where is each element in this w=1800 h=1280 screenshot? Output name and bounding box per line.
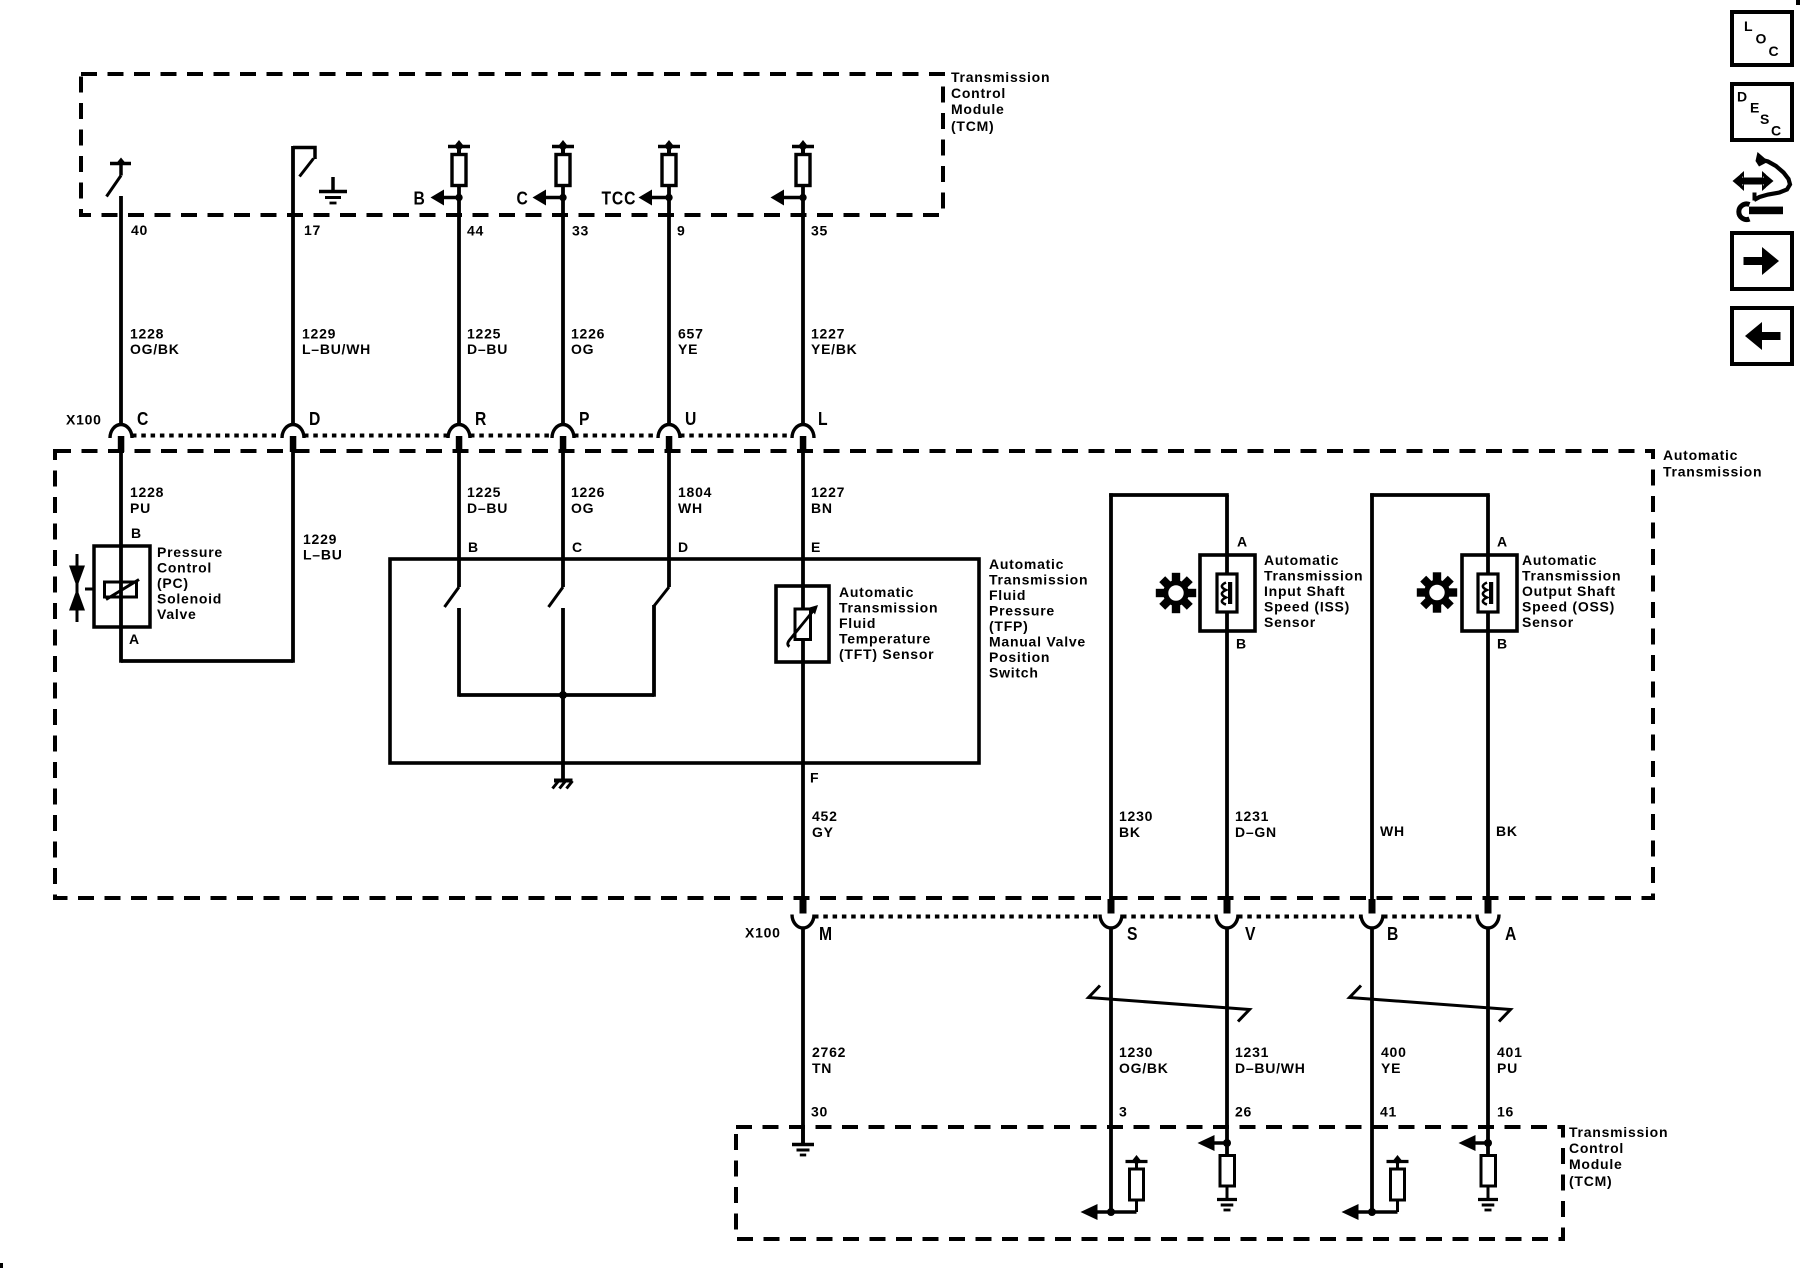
svg-text:D–BU/WH: D–BU/WH (1235, 1060, 1306, 1076)
svg-text:E: E (1750, 100, 1760, 116)
svg-text:Fluid: Fluid (839, 615, 876, 631)
svg-text:L–BU/WH: L–BU/WH (302, 341, 371, 357)
svg-text:1804: 1804 (678, 484, 712, 500)
svg-text:BK: BK (1119, 824, 1141, 840)
svg-text:Sensor: Sensor (1522, 614, 1574, 630)
svg-text:C: C (572, 539, 583, 555)
svg-text:A: A (1505, 923, 1517, 945)
svg-text:A: A (1237, 534, 1248, 550)
svg-text:D–BU: D–BU (467, 500, 508, 516)
svg-text:Fluid: Fluid (989, 587, 1026, 603)
svg-text:YE/BK: YE/BK (811, 341, 858, 357)
svg-text:1227: 1227 (811, 326, 845, 342)
svg-text:PU: PU (1497, 1060, 1518, 1076)
svg-text:B: B (1497, 636, 1508, 652)
svg-text:3: 3 (1119, 1104, 1128, 1120)
svg-text:40: 40 (131, 222, 148, 238)
svg-text:Module: Module (1569, 1156, 1623, 1172)
svg-text:L: L (818, 408, 828, 430)
svg-text:OG/BK: OG/BK (1119, 1060, 1169, 1076)
svg-text:D–BU: D–BU (467, 341, 508, 357)
svg-text:1226: 1226 (571, 326, 605, 342)
svg-text:X100: X100 (745, 925, 781, 941)
svg-text:F: F (810, 770, 819, 786)
svg-text:YE: YE (678, 341, 698, 357)
svg-text:452: 452 (812, 808, 838, 824)
svg-text:Temperature: Temperature (839, 631, 931, 647)
svg-text:B: B (1236, 636, 1247, 652)
svg-text:Automatic: Automatic (1264, 552, 1339, 568)
svg-text:U: U (685, 408, 697, 430)
svg-text:S: S (1127, 923, 1138, 945)
svg-text:TCC: TCC (602, 187, 637, 209)
svg-text:35: 35 (811, 223, 828, 239)
svg-text:(TCM): (TCM) (1569, 1173, 1612, 1189)
svg-text:Transmission: Transmission (1264, 568, 1363, 584)
svg-text:Automatic: Automatic (1663, 447, 1738, 463)
svg-text:Pressure: Pressure (157, 544, 223, 560)
svg-text:1226: 1226 (571, 484, 605, 500)
svg-text:Module: Module (951, 101, 1005, 117)
svg-text:1231: 1231 (1235, 1044, 1269, 1060)
svg-text:Transmission: Transmission (1522, 568, 1621, 584)
svg-text:16: 16 (1497, 1104, 1514, 1120)
svg-text:OG/BK: OG/BK (130, 341, 180, 357)
svg-text:YE: YE (1381, 1060, 1401, 1076)
svg-text:TN: TN (812, 1060, 832, 1076)
svg-text:26: 26 (1235, 1104, 1252, 1120)
svg-text:BN: BN (811, 500, 833, 516)
svg-text:C: C (137, 408, 149, 430)
svg-text:C: C (1771, 123, 1782, 139)
svg-text:Position: Position (989, 649, 1050, 665)
svg-text:S: S (1760, 111, 1770, 127)
svg-text:GY: GY (812, 824, 834, 840)
svg-text:Manual Valve: Manual Valve (989, 634, 1086, 650)
svg-text:B: B (414, 187, 426, 209)
svg-text:X100: X100 (66, 412, 102, 428)
svg-text:Transmission: Transmission (989, 572, 1088, 588)
svg-text:V: V (1245, 923, 1256, 945)
svg-text:A: A (1497, 534, 1508, 550)
svg-text:1229: 1229 (303, 531, 337, 547)
svg-text:Automatic: Automatic (989, 556, 1064, 572)
svg-text:WH: WH (678, 500, 703, 516)
svg-text:Control: Control (1569, 1140, 1624, 1156)
svg-text:1230: 1230 (1119, 808, 1153, 824)
svg-text:1225: 1225 (467, 484, 501, 500)
svg-text:30: 30 (811, 1104, 828, 1120)
svg-text:Speed (ISS): Speed (ISS) (1264, 599, 1350, 615)
svg-text:1231: 1231 (1235, 808, 1269, 824)
svg-text:(TCM): (TCM) (951, 118, 994, 134)
svg-text:OG: OG (571, 500, 594, 516)
svg-text:O: O (1756, 31, 1768, 47)
svg-text:B: B (1387, 923, 1399, 945)
svg-text:(TFT) Sensor: (TFT) Sensor (839, 646, 934, 662)
svg-text:P: P (579, 408, 590, 430)
svg-text:Speed (OSS): Speed (OSS) (1522, 599, 1615, 615)
svg-text:OG: OG (571, 341, 594, 357)
svg-text:Automatic: Automatic (1522, 552, 1597, 568)
svg-text:D: D (1737, 89, 1748, 105)
svg-text:Input Shaft: Input Shaft (1264, 583, 1345, 599)
svg-text:401: 401 (1497, 1044, 1523, 1060)
svg-text:L–BU: L–BU (303, 547, 343, 563)
svg-text:(TFP): (TFP) (989, 618, 1029, 634)
svg-text:E: E (811, 539, 821, 555)
svg-text:1227: 1227 (811, 484, 845, 500)
svg-text:PU: PU (130, 500, 151, 516)
svg-text:Automatic: Automatic (839, 584, 914, 600)
svg-text:Valve: Valve (157, 606, 197, 622)
svg-text:R: R (475, 408, 487, 430)
svg-text:C: C (517, 187, 529, 209)
svg-text:D: D (678, 539, 689, 555)
svg-text:9: 9 (677, 223, 686, 239)
svg-text:400: 400 (1381, 1044, 1407, 1060)
svg-text:17: 17 (304, 222, 321, 238)
svg-text:BK: BK (1496, 823, 1518, 839)
svg-text:Output Shaft: Output Shaft (1522, 583, 1616, 599)
svg-text:Transmission: Transmission (1663, 464, 1762, 480)
svg-text:Control: Control (951, 85, 1006, 101)
svg-text:(PC): (PC) (157, 575, 189, 591)
svg-text:1230: 1230 (1119, 1044, 1153, 1060)
svg-text:Control: Control (157, 560, 212, 576)
svg-text:Transmission: Transmission (839, 600, 938, 616)
svg-text:Pressure: Pressure (989, 603, 1055, 619)
svg-text:657: 657 (678, 326, 704, 342)
svg-text:33: 33 (572, 223, 589, 239)
svg-text:1228: 1228 (130, 326, 164, 342)
svg-text:2762: 2762 (812, 1044, 846, 1060)
svg-text:B: B (131, 525, 142, 541)
svg-text:Transmission: Transmission (1569, 1124, 1668, 1140)
svg-text:1225: 1225 (467, 326, 501, 342)
svg-text:Switch: Switch (989, 665, 1039, 681)
svg-text:WH: WH (1380, 823, 1405, 839)
svg-text:D: D (309, 408, 321, 430)
svg-text:A: A (129, 631, 140, 647)
svg-text:C: C (1769, 43, 1780, 59)
svg-text:Solenoid: Solenoid (157, 591, 222, 607)
svg-text:Transmission: Transmission (951, 69, 1050, 85)
svg-text:Sensor: Sensor (1264, 614, 1316, 630)
svg-text:44: 44 (467, 223, 484, 239)
svg-text:M: M (819, 923, 833, 945)
svg-text:B: B (468, 539, 479, 555)
svg-text:D–GN: D–GN (1235, 824, 1277, 840)
svg-text:1228: 1228 (130, 484, 164, 500)
svg-text:L: L (1744, 18, 1753, 34)
svg-text:41: 41 (1380, 1104, 1397, 1120)
svg-text:1229: 1229 (302, 326, 336, 342)
